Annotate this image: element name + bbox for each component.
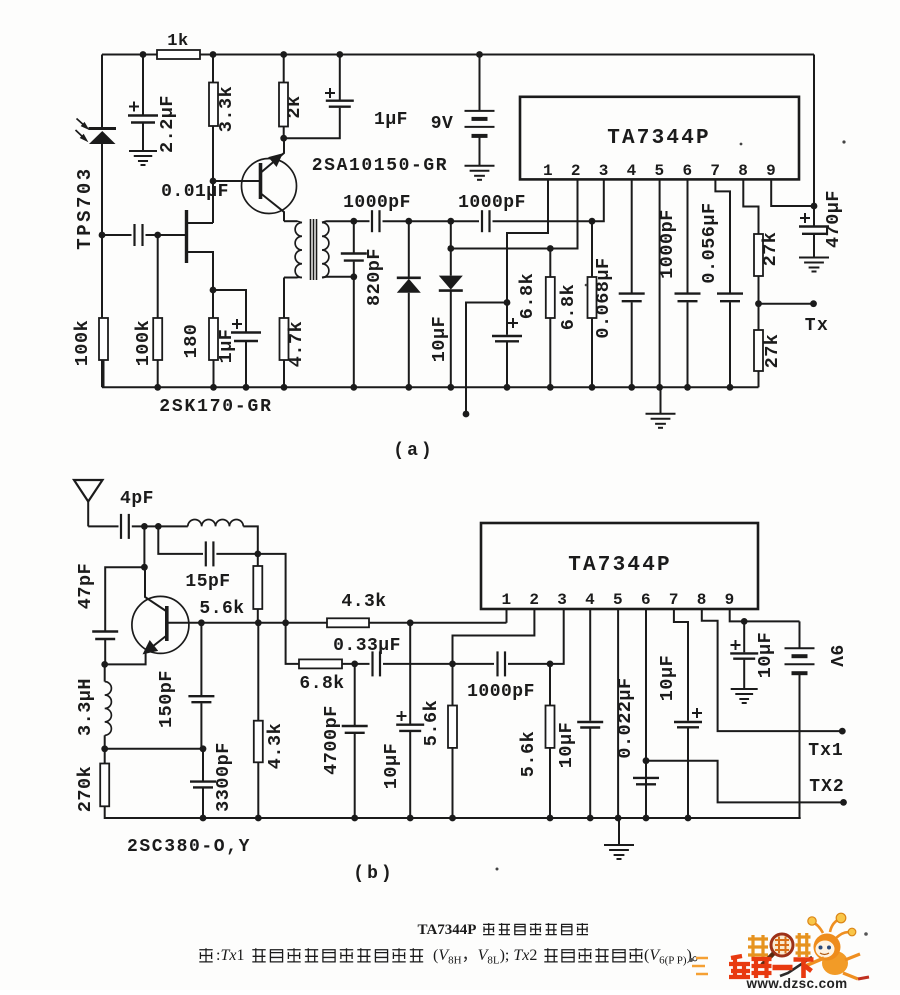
svg-text:10μF: 10μF: [657, 655, 678, 701]
svg-text:8: 8: [697, 591, 707, 609]
svg-text:270k: 270k: [75, 766, 96, 812]
svg-text:Tx: Tx: [805, 316, 830, 336]
svg-text:4700pF: 4700pF: [321, 705, 342, 775]
svg-text:4.3k: 4.3k: [265, 723, 286, 769]
svg-text:3300pF: 3300pF: [213, 742, 234, 812]
svg-text::Tx1: :Tx1: [216, 947, 244, 964]
svg-text:(a): (a): [393, 441, 434, 461]
svg-text:TA7344P: TA7344P: [568, 554, 672, 577]
svg-text:0.01μF: 0.01μF: [161, 182, 229, 202]
svg-text:15pF: 15pF: [185, 572, 230, 592]
svg-text:TA7344P: TA7344P: [418, 922, 477, 938]
svg-text:9V: 9V: [825, 645, 845, 668]
svg-text:4pF: 4pF: [120, 489, 154, 509]
svg-text:4.3k: 4.3k: [341, 592, 386, 612]
svg-text:2: 2: [529, 591, 539, 609]
svg-text:6.8k: 6.8k: [517, 273, 538, 319]
svg-text:TPS703: TPS703: [74, 166, 96, 249]
svg-text:1000pF: 1000pF: [458, 193, 526, 213]
svg-text:www.dzsc.com: www.dzsc.com: [745, 976, 847, 990]
svg-text:4: 4: [627, 162, 637, 180]
svg-text:6.8k: 6.8k: [558, 284, 579, 330]
svg-text:9: 9: [725, 591, 735, 609]
svg-text:1μF: 1μF: [216, 329, 237, 364]
svg-text:180: 180: [181, 324, 202, 359]
svg-text:2SA10150-GR: 2SA10150-GR: [312, 156, 448, 176]
svg-text:0.056μF: 0.056μF: [699, 202, 720, 283]
svg-text:820pF: 820pF: [364, 248, 385, 306]
svg-text:TX2: TX2: [809, 777, 844, 797]
svg-text:2SC380-O,Y: 2SC380-O,Y: [127, 837, 251, 857]
svg-text:7: 7: [710, 162, 720, 180]
svg-text:5.6k: 5.6k: [421, 700, 442, 746]
svg-text:47pF: 47pF: [75, 563, 96, 609]
svg-text:8: 8: [738, 162, 748, 180]
svg-text:4.7k: 4.7k: [286, 321, 307, 367]
svg-text:10μF: 10μF: [755, 632, 776, 678]
svg-text:5: 5: [655, 162, 665, 180]
svg-text:9: 9: [766, 162, 776, 180]
svg-text:1000pF: 1000pF: [467, 682, 535, 702]
svg-text:3: 3: [557, 591, 567, 609]
svg-text:TA7344P: TA7344P: [607, 127, 711, 150]
svg-text:6: 6: [641, 591, 651, 609]
svg-text:3.3k: 3.3k: [216, 86, 237, 132]
svg-text:1k: 1k: [167, 32, 188, 51]
svg-text:0.068μF: 0.068μF: [593, 257, 614, 338]
svg-text:3.3μH: 3.3μH: [75, 678, 96, 736]
svg-text:5.6k: 5.6k: [199, 599, 244, 619]
svg-text:1000pF: 1000pF: [343, 193, 411, 213]
svg-text:1: 1: [543, 162, 553, 180]
svg-text:2.2μF: 2.2μF: [157, 95, 178, 153]
svg-text:6.8k: 6.8k: [299, 674, 344, 694]
svg-text:0.022μF: 0.022μF: [615, 677, 636, 758]
svg-text:9V: 9V: [431, 114, 454, 134]
svg-text:27k: 27k: [762, 334, 783, 369]
svg-text:Tx1: Tx1: [808, 741, 843, 761]
svg-text:7: 7: [669, 591, 679, 609]
svg-text:2: 2: [571, 162, 581, 180]
svg-text:0.33μF: 0.33μF: [333, 636, 401, 656]
svg-text:6: 6: [682, 162, 692, 180]
svg-text:5: 5: [613, 591, 623, 609]
svg-text:150pF: 150pF: [156, 670, 177, 728]
svg-text:470μF: 470μF: [823, 190, 844, 248]
svg-text:1μF: 1μF: [374, 110, 408, 130]
svg-text:10μF: 10μF: [381, 743, 402, 789]
svg-text:100k: 100k: [72, 320, 93, 366]
svg-text:10μF: 10μF: [556, 722, 577, 768]
svg-text:5.6k: 5.6k: [518, 731, 539, 777]
svg-text:1: 1: [501, 591, 511, 609]
svg-text:1000pF: 1000pF: [657, 209, 678, 279]
svg-text:4: 4: [585, 591, 595, 609]
svg-text:2SK170-GR: 2SK170-GR: [159, 397, 272, 417]
svg-text:100k: 100k: [133, 320, 154, 366]
svg-text:3: 3: [599, 162, 609, 180]
svg-text:27k: 27k: [760, 232, 781, 267]
svg-text:(b): (b): [353, 864, 394, 884]
svg-text:10μF: 10μF: [429, 316, 450, 362]
